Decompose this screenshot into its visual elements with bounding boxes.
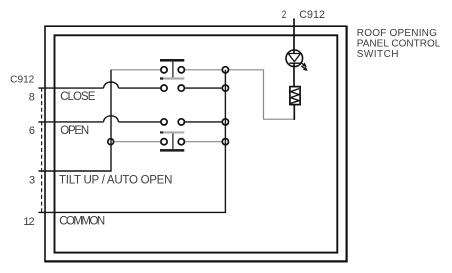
svg-text:C912: C912	[299, 9, 325, 21]
svg-text:CLOSE: CLOSE	[60, 91, 96, 103]
svg-text:PANEL CONTROL: PANEL CONTROL	[357, 39, 441, 50]
svg-text:8: 8	[29, 91, 35, 103]
svg-text:C912: C912	[10, 75, 35, 86]
svg-text:12: 12	[23, 216, 34, 228]
svg-text:2: 2	[282, 9, 287, 21]
svg-text:COMMON: COMMON	[59, 216, 105, 228]
svg-text:SWITCH: SWITCH	[357, 49, 399, 60]
svg-text:3: 3	[29, 175, 35, 187]
svg-text:OPEN: OPEN	[60, 125, 89, 137]
svg-text:TILT UP / AUTO OPEN: TILT UP / AUTO OPEN	[59, 175, 172, 187]
svg-text:6: 6	[29, 125, 35, 137]
svg-text:ROOF OPENING: ROOF OPENING	[357, 28, 437, 39]
